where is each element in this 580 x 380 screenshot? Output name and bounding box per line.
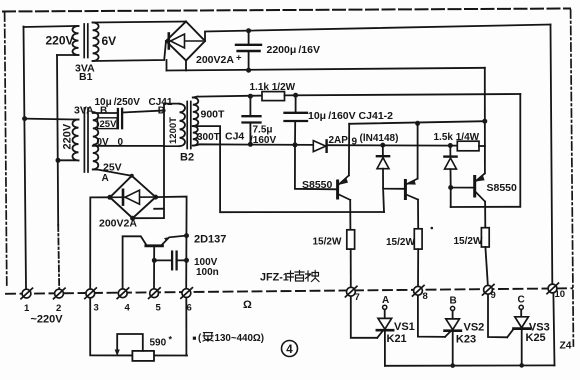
wire: mid rail from 300T bottom — [193, 144, 313, 145]
svg-text:JFZ-1: JFZ-1 — [260, 272, 289, 284]
module border left dash-dot — [5, 13, 7, 288]
diode D2 (to Q2 base) — [380, 143, 385, 148]
wire: terminal 7 gate drop — [351, 297, 377, 338]
svg-text:100n: 100n — [196, 267, 219, 278]
svg-text:Ω: Ω — [243, 299, 252, 311]
capacitor CJ4 7.5u/160V — [249, 96, 251, 144]
svg-text:8: 8 — [423, 291, 428, 302]
bridge 2 internal diode — [113, 196, 153, 198]
wire: A tap lead to bridge 2 AC top — [93, 170, 132, 176]
wire: Q2 emitter riser — [417, 123, 419, 178]
pseudo glyph mo — [288, 271, 305, 282]
wire: Q1 collector drop — [349, 200, 351, 230]
svg-text:15/2W: 15/2W — [386, 237, 415, 248]
pseudo glyph kuai — [306, 271, 320, 282]
svg-text:15/2W: 15/2W — [454, 236, 483, 247]
wire: terminal 8 gate drop — [418, 296, 445, 337]
svg-text:VS1: VS1 — [394, 321, 415, 333]
svg-text:200V2A: 200V2A — [196, 54, 234, 66]
terminal 6 — [181, 288, 193, 299]
diode 2AP9 — [313, 141, 326, 152]
terminal 4 — [117, 288, 129, 299]
svg-text:25V: 25V — [100, 119, 118, 130]
svg-text:~220V: ~220V — [31, 314, 64, 326]
svg-text:5: 5 — [156, 303, 162, 314]
svg-text:S8550: S8550 — [302, 179, 333, 191]
capacitor C 2200u/16V — [248, 31, 250, 70]
bridge rectifier 1 (200V2A) diamond — [166, 22, 205, 61]
svg-text:2AP: 2AP — [329, 135, 349, 146]
transformer B2 core — [186, 102, 188, 149]
transformer B2 secondary 900T winding — [193, 98, 199, 127]
transistor 2D137 emitter — [162, 236, 187, 245]
svg-text:10μ /250V: 10μ /250V — [95, 97, 141, 108]
wire: mains L1 vertical (terminal 1 to B1 primary top) — [24, 27, 27, 289]
wire: bridge2 bottom corner to B2 coil left edge — [133, 104, 164, 219]
resistor 15/2W no.2 — [414, 229, 422, 249]
svg-text:2: 2 — [56, 303, 61, 314]
svg-text:4: 4 — [286, 344, 293, 356]
svg-text:Z4: Z4 — [560, 341, 572, 352]
svg-text:S8550: S8550 — [487, 182, 518, 194]
wire: B1 primary bottom lead to L2 — [57, 54, 75, 56]
svg-text:2D137: 2D137 — [194, 233, 226, 245]
wire: mains L2 vertical (B1 primary bottom down), solid part — [57, 55, 58, 225]
note bullet — [193, 337, 196, 340]
resistor 15/2W no.3 — [481, 228, 489, 247]
svg-text:7: 7 — [355, 292, 360, 303]
svg-text:9: 9 — [491, 290, 496, 301]
svg-text:6V: 6V — [102, 34, 117, 48]
wire: mains L2 vertical lower dash-dot part to terminal 2 — [58, 225, 59, 288]
transistor Q1 S8550 — [336, 181, 339, 198]
terminal 10 — [547, 283, 559, 294]
transformer B2 secondary 300T winding — [193, 126, 198, 146]
wire: 0V mid tap rail to B2 coil left edge — [93, 145, 164, 147]
svg-text:15/2W: 15/2W — [313, 236, 342, 247]
module border bottom dashed (terminal row) — [6, 288, 572, 294]
svg-text:B: B — [450, 295, 457, 306]
bridge 1 internal diode — [169, 40, 203, 42]
transformer A primary winding 220V — [73, 120, 79, 161]
wire: emitter rail y123 — [349, 121, 485, 124]
svg-text:10: 10 — [555, 289, 566, 300]
wire: Q2 collector drop — [417, 200, 419, 229]
label 25V in box (top tap) — [98, 118, 118, 129]
wire: trafoA primary top link from L1 — [25, 118, 75, 121]
transformer B1 core — [83, 24, 85, 58]
svg-text:B2: B2 — [180, 152, 194, 164]
svg-text:2200μ /16V: 2200μ /16V — [267, 44, 320, 56]
speck — [431, 227, 434, 230]
transistor Q2 S8550 — [404, 181, 407, 199]
wire: Q3 collector drop — [484, 202, 486, 228]
wire: terminal 9 gate drop — [488, 295, 507, 338]
thyristor VS2 — [445, 306, 461, 365]
bridge rectifier 2 (200V2A) diamond — [110, 176, 156, 218]
transistor 2D137 collector path from terminal 4 — [123, 236, 147, 288]
wire: top rail (left part to 1.1k) — [198, 96, 263, 97]
potentiometer 590 box — [132, 351, 154, 361]
capacitor 10u/250V (coupling) — [117, 109, 119, 128]
svg-text:10μ /160V CJ41-2: 10μ /160V CJ41-2 — [308, 110, 393, 122]
svg-text:130~440Ω): 130~440Ω) — [215, 333, 265, 344]
node: emitter junction on terminal6 column — [184, 233, 189, 238]
terminal 5 — [149, 288, 161, 299]
svg-text:C: C — [518, 294, 525, 305]
thyristor VS1 — [377, 305, 393, 366]
wire: bridge1 - output drop — [185, 61, 187, 71]
wire: top rail (right part) to right column — [285, 94, 521, 95]
svg-text:CJ4: CJ4 — [225, 131, 244, 143]
svg-text:VS2: VS2 — [464, 321, 485, 333]
resistor 15/2W no.1 — [347, 230, 355, 249]
svg-text:K25: K25 — [526, 332, 546, 344]
terminal 9 — [483, 284, 495, 295]
svg-text:300T: 300T — [197, 132, 220, 143]
wire: negative rail to the right (to Q3 emitter column) — [167, 68, 485, 71]
svg-text:6: 6 — [187, 303, 192, 314]
transistor 2D137 base bar — [146, 244, 163, 247]
svg-text:+: + — [236, 53, 242, 64]
wire: 900T top lead into top rail — [193, 96, 198, 99]
svg-text:1200T: 1200T — [168, 117, 179, 144]
transformer A core — [83, 108, 85, 172]
svg-text:*: * — [169, 335, 173, 345]
wire: right column x485 down to Q3 emitter — [484, 68, 486, 174]
wire: stub at bridge1 lower-left — [166, 60, 168, 71]
terminal 7 — [345, 286, 357, 297]
svg-text:4: 4 — [125, 303, 131, 314]
capacitor 10u/160V CJ41-2 — [294, 95, 297, 145]
terminal 1 — [21, 288, 33, 299]
svg-text:220V: 220V — [46, 34, 74, 48]
wire: 6V bottom lead to bridge 1 AC left — [93, 41, 166, 61]
svg-text:200V2A: 200V2A — [99, 218, 137, 230]
svg-text:9: 9 — [352, 137, 358, 148]
capacitor 100V 100n — [152, 258, 157, 263]
wire: 6V top lead to bridge 1 AC top — [93, 22, 186, 23]
wire: cap to relay coil D — [122, 111, 164, 113]
wire: vertical right rail down to terminal 10 — [551, 25, 553, 284]
circled 4 figure number — [282, 341, 298, 357]
wire: Q1 emitter riser — [348, 124, 350, 176]
svg-text:900T: 900T — [201, 109, 226, 121]
wire: common cathode bottom rail — [385, 364, 555, 366]
wire: trafoA primary bottom link to L2 junction — [58, 159, 75, 161]
wire: terminal 3 down to 590 resistor line — [90, 298, 187, 356]
terminal 3 — [85, 288, 97, 299]
svg-text:(lN4148): (lN4148) — [360, 133, 399, 144]
wire: B1 primary top lead — [24, 26, 75, 27]
wire: mid rail continues to 1.5k — [327, 144, 458, 146]
svg-text:3: 3 — [94, 303, 99, 314]
svg-text:(: ( — [198, 333, 202, 344]
wire: Q2 base node — [383, 189, 405, 212]
thyristor VS3 — [507, 305, 530, 365]
resistor 1.5k 1/4W — [457, 141, 479, 151]
wire: bridge2 + right corner to terminal 6 column — [156, 197, 187, 288]
wire: 2D137 base to terminal 5 — [153, 247, 155, 288]
svg-text:1.5k 1/4W: 1.5k 1/4W — [434, 132, 480, 143]
transistor Q3 S8550 — [473, 177, 476, 197]
wire: terminal 6 down — [185, 298, 187, 356]
transformer B1 secondary winding 6V — [93, 23, 99, 62]
svg-text:B1: B1 — [79, 71, 93, 83]
diode D3 (to Q3 base) — [448, 143, 453, 148]
wire: bridge2 AC left to terminal 3 — [90, 197, 110, 288]
svg-text:1.1k 1/2W: 1.1k 1/2W — [250, 82, 296, 93]
module border right dash-dot — [571, 10, 574, 346]
module border top dashed — [3, 9, 570, 12]
svg-text:A: A — [382, 295, 389, 306]
svg-text:K23: K23 — [456, 333, 476, 345]
resistor 1.1k 1/2W — [262, 92, 285, 101]
potentiometer wiper — [117, 334, 143, 352]
wire: stub left of B2 drop — [154, 208, 164, 210]
wire: right column x520 down to Q3 bias node — [451, 94, 521, 207]
wire: Q3 base node — [448, 185, 453, 190]
wire: bottom rail riser to terminal 10 — [553, 293, 554, 365]
terminal 2 — [54, 288, 66, 299]
svg-text:590: 590 — [150, 338, 167, 349]
wire: bridge1 + output jog and top rail to terminal 10 — [205, 25, 551, 42]
relay coil CJ41 1200T (B2 primary) box — [164, 104, 180, 147]
wire: Q1 base feed from mid rail — [295, 145, 337, 189]
transformer B1 primary winding 220V — [73, 26, 79, 55]
node: junction on L1 at transformer A tap — [22, 116, 27, 121]
svg-text:1: 1 — [24, 303, 30, 314]
svg-text:A: A — [102, 173, 109, 184]
wire: B tap to coupling cap — [93, 112, 117, 114]
wire: 900T/300T tap bias link — [193, 126, 384, 212]
svg-text:220V: 220V — [62, 123, 74, 149]
terminal 8 — [413, 285, 425, 296]
svg-text:K21: K21 — [387, 333, 407, 345]
node: junction L2 with transformer A primary bottom — [56, 158, 61, 163]
transformer A secondary winding (25V-0-25V) — [93, 112, 99, 169]
